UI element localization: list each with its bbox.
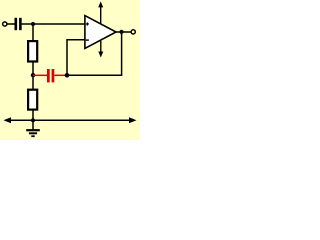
ground rail: [9, 119, 131, 121]
ground: [26, 130, 40, 136]
wire op-amp output: [116, 31, 131, 33]
resistor R1: [28, 41, 37, 61]
wire node A to R1: [32, 24, 34, 41]
op-amp U1: [85, 16, 116, 49]
input terminal: [3, 22, 7, 26]
node B junction dot: [31, 73, 35, 77]
wire R1 to node B to R2: [32, 62, 34, 91]
rail arrow left: [4, 117, 12, 123]
minus label: [86, 39, 89, 41]
rail junction dot: [31, 118, 35, 122]
wire input to C1: [7, 23, 14, 25]
capacitor C2 (bootstrap, red): [47, 69, 54, 82]
node A junction dot: [31, 22, 35, 26]
red wire C2 to node C: [54, 74, 65, 76]
output node junction dot: [119, 30, 123, 34]
capacitor C1: [15, 18, 22, 30]
wire node C up to op-amp - input: [67, 40, 85, 76]
node C junction dot: [65, 73, 70, 78]
wire node B2 to ground rail: [32, 110, 34, 130]
wire C1 to op-amp + input: [22, 23, 85, 25]
resistor R2: [28, 90, 37, 110]
rail arrow right: [129, 117, 137, 123]
negative supply arrow: [98, 41, 103, 58]
red wire node B to C2: [33, 74, 47, 76]
output terminal: [131, 30, 135, 34]
positive supply arrow: [98, 1, 103, 24]
wire node C to output node: [67, 32, 122, 75]
plus label: [86, 22, 89, 25]
